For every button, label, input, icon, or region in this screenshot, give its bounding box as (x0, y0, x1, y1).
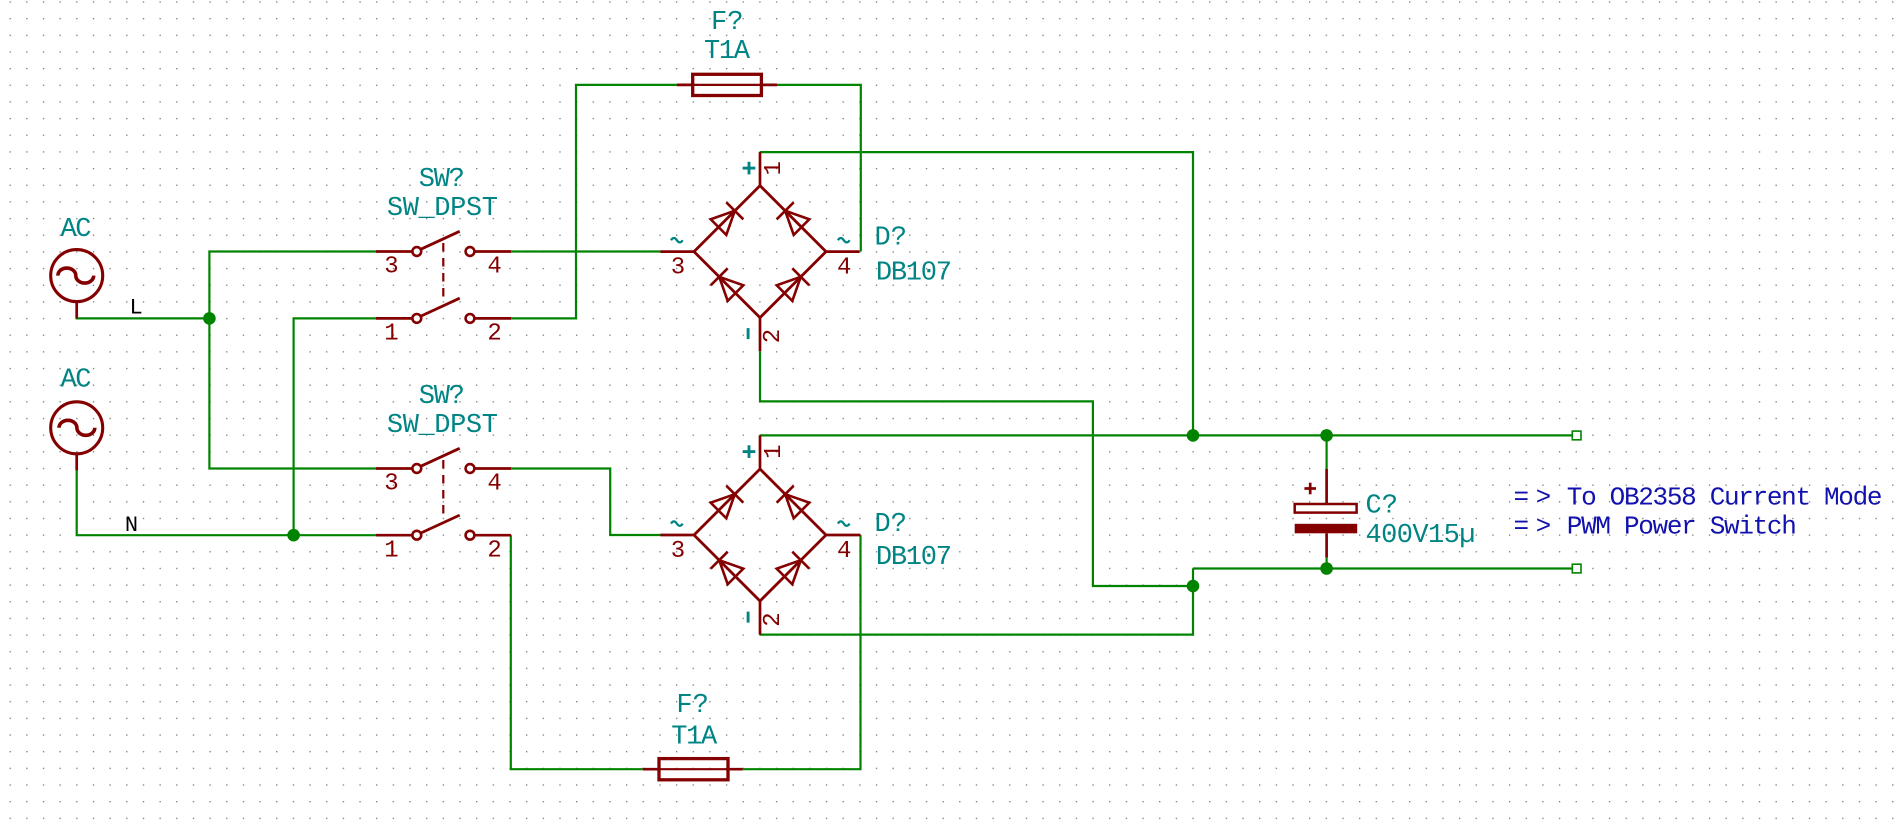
wire: bottom output rail (1193, 567, 1572, 569)
D2 diode lower-right (777, 560, 801, 584)
wire: junction B up and right to SW1 pin 1 (294, 318, 376, 535)
unconnected end square top rail (1572, 431, 1581, 440)
D1 pin 4 name ~ (838, 238, 850, 242)
wire: junction A up and right to SW1 pin 3 (209, 252, 376, 319)
D1 pin 1 name + (743, 162, 756, 175)
wire: SW2 pin 2 down to fuse F2 left (511, 535, 643, 769)
svg-text:2: 2 (487, 321, 501, 348)
svg-text:T1A: T1A (704, 37, 751, 67)
D2 diode upper-left (711, 494, 735, 518)
svg-text:AC: AC (61, 215, 92, 245)
wire: junction A down and right to SW2 pin 3 (209, 318, 376, 468)
junction F (top rail / D1 feed) (1187, 429, 1200, 442)
D1 diode upper-right (785, 211, 809, 235)
D1 diode lower-left (719, 277, 743, 301)
wire: SW1 pin 4 to bridge D1 pin 3 (511, 250, 660, 252)
switch SW2 (SW_DPST) (376, 448, 511, 539)
wire: bridge D2 pin 1 to top output rail (760, 434, 1193, 436)
svg-text:3: 3 (671, 254, 685, 281)
wire: fuse F1 right down to bridge D1 pin 4 (777, 85, 861, 252)
svg-text:C?: C? (1366, 492, 1398, 522)
D2 diode upper-right (785, 494, 809, 518)
svg-text:=>To OB2358 Current Mode: =>To OB2358 Current Mode (1514, 483, 1883, 513)
wire: bridge D2 pin 2 right to junction E (760, 586, 1193, 635)
svg-text:4: 4 (487, 471, 501, 498)
junction H (bottom rail / C1) (1320, 562, 1333, 575)
wire: fuse F2 right up to bridge D2 pin 4 (743, 535, 861, 769)
svg-text:4: 4 (487, 254, 501, 281)
D2 diode lower-left (719, 560, 743, 584)
junction B (287, 529, 300, 542)
D2 pin 2 name - (747, 612, 750, 623)
wire L: AC1 output to junction A (77, 310, 210, 318)
wire: top output rail (1193, 434, 1572, 436)
wire: capacitor C1 bottom connection (1325, 558, 1327, 569)
svg-text:2: 2 (760, 329, 787, 343)
C1 polarity + mark (1304, 483, 1316, 495)
svg-text:N: N (125, 513, 138, 538)
svg-text:4: 4 (837, 538, 851, 565)
svg-text:AC: AC (61, 365, 92, 395)
svg-text:SW_DPST: SW_DPST (387, 194, 498, 224)
wire: bridge D1 pin 2 down/right to junction E (760, 351, 1193, 586)
D1 pin 3 name ~ (671, 238, 683, 242)
svg-text:1: 1 (761, 161, 788, 175)
wire N: AC2 output to junction B and SW2 pin 1 (77, 462, 376, 535)
wire: junction E up to bottom rail corner (1192, 569, 1194, 587)
svg-text:F?: F? (676, 691, 708, 721)
switch SW1 (SW_DPST) (376, 231, 511, 322)
svg-text:3: 3 (671, 538, 685, 565)
svg-text:D?: D? (875, 224, 907, 254)
junction A (203, 312, 216, 325)
bridge rectifier D1 (DB107) (661, 152, 860, 351)
svg-text:SW?: SW? (419, 165, 465, 195)
D2 pin 4 name ~ (838, 521, 850, 525)
junction E (1187, 580, 1200, 593)
D1 diode lower-right (777, 277, 801, 301)
wire: capacitor C1 top connection (1325, 435, 1327, 469)
unconnected end square bottom rail (1572, 564, 1581, 573)
fuse F1 (677, 74, 777, 95)
capacitor C1 (polarized) (1295, 469, 1358, 558)
AC source V1 (51, 250, 103, 319)
AC source V2 (51, 402, 103, 471)
wire: SW1 pin 2 up to fuse F1 left (511, 85, 677, 319)
svg-text:SW_DPST: SW_DPST (387, 411, 498, 441)
svg-text:2: 2 (760, 612, 787, 626)
svg-text:400V15µ: 400V15µ (1366, 521, 1476, 551)
svg-text:4: 4 (837, 254, 851, 281)
svg-text:2: 2 (487, 538, 501, 565)
D2 pin 1 name + (743, 445, 756, 458)
svg-text:SW?: SW? (419, 382, 465, 412)
svg-text:T1A: T1A (671, 722, 718, 752)
svg-text:D?: D? (875, 510, 907, 540)
D1 diode upper-left (711, 211, 735, 235)
fuse F2 (643, 759, 743, 780)
svg-text:3: 3 (384, 471, 398, 498)
svg-text:3: 3 (384, 254, 398, 281)
svg-text:=>PWM Power Switch: =>PWM Power Switch (1514, 512, 1797, 542)
D2 pin 3 name ~ (671, 521, 683, 525)
wire: bridge D1 pin 1 to top-right vertical (760, 152, 1193, 435)
svg-text:DB107: DB107 (876, 543, 952, 573)
svg-text:DB107: DB107 (876, 258, 952, 288)
svg-text:1: 1 (384, 538, 398, 565)
junction G (top rail / C1) (1320, 429, 1333, 442)
svg-text:1: 1 (761, 444, 788, 458)
svg-text:1: 1 (384, 321, 398, 348)
svg-text:L: L (130, 295, 143, 320)
D1 pin 2 name - (747, 328, 750, 339)
svg-text:F?: F? (711, 8, 743, 38)
bridge rectifier D2 (DB107) (661, 435, 861, 634)
wire: SW2 pin 4 to bridge D2 pin 3 (511, 469, 663, 536)
